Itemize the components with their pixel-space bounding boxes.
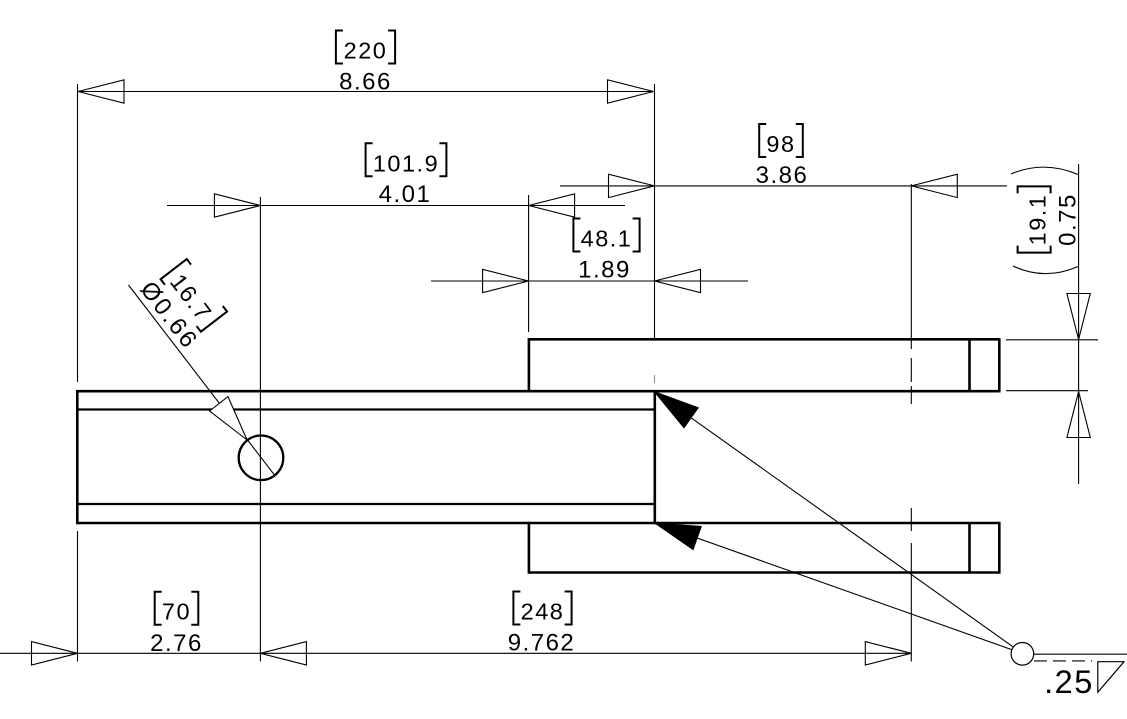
lower flange right edge xyxy=(998,522,1001,574)
arrow 3.86 left xyxy=(609,174,655,197)
arrow 0.75 bottom xyxy=(1067,392,1090,438)
extension line x=654.5 dash across flange xyxy=(654,375,656,383)
svg-text:4.01: 4.01 xyxy=(379,181,432,208)
arrow 1.89 right xyxy=(655,269,701,292)
dimension line 70 / 248 xyxy=(0,652,911,654)
paren arc top of (19.1) xyxy=(1011,167,1078,174)
hole diameter leader line xyxy=(129,285,275,476)
tube inner wall upper line xyxy=(79,408,655,410)
lower flange bottom edge xyxy=(529,571,999,574)
dimension line 220/8.66 xyxy=(78,91,654,93)
svg-text:101.9: 101.9 xyxy=(373,150,439,176)
tube top edge / flange bottom edge xyxy=(77,390,999,393)
weld reference line solid xyxy=(1034,653,1127,655)
svg-text:19.1: 19.1 xyxy=(1025,194,1051,246)
tube left edge xyxy=(76,390,79,524)
arrow 9.762 right xyxy=(865,642,911,665)
upper flange left edge xyxy=(528,338,531,392)
centerline dash x=911.3 lower flange a xyxy=(910,508,912,531)
extension line flange top right (y=339.8) xyxy=(1006,339,1098,341)
hole leader open arrow xyxy=(210,397,248,440)
arrow 3.86 right xyxy=(911,174,957,197)
dimension line 101.9/4.01 xyxy=(167,205,625,207)
rotated hole diameter text [16.7] D0.66 xyxy=(135,255,232,355)
extension line left (x=77.5) upper xyxy=(77,84,79,382)
centerline dash x=911.3 upper flange b xyxy=(910,386,912,404)
weld leader filled arrow lower xyxy=(655,523,702,550)
dimension line 98/3.86 xyxy=(560,185,1007,187)
arrow 1.89 left xyxy=(483,269,529,292)
tube right end edge xyxy=(653,390,656,524)
svg-text:9.762: 9.762 xyxy=(508,630,576,657)
fillet weld triangle symbol xyxy=(1098,662,1124,693)
svg-text:.25: .25 xyxy=(1044,664,1094,700)
extension/centerline x=911.3 upper solid xyxy=(910,184,912,349)
arrow 8.66 left xyxy=(78,80,124,103)
arrow 2.76 right xyxy=(260,642,306,665)
hitch pin hole circle xyxy=(239,436,284,481)
weld leader filled arrow upper xyxy=(654,392,698,428)
svg-text:0.75: 0.75 xyxy=(1055,193,1082,246)
centerline dash x=911.3 upper flange a xyxy=(910,358,912,382)
svg-text:2.76: 2.76 xyxy=(150,630,203,657)
dimension line 48.1/1.89 xyxy=(431,280,748,282)
arrow 2.76 left xyxy=(32,642,78,665)
svg-text:248: 248 xyxy=(521,599,565,625)
upper flange inner end line xyxy=(968,339,971,391)
svg-text:48.1: 48.1 xyxy=(581,226,633,252)
extension line x=654.5 upper xyxy=(654,84,656,338)
extension line hole center (x=260.4) xyxy=(259,197,261,662)
weld leader to upper step corner xyxy=(654,392,1013,647)
paren arc bottom of (19.1) xyxy=(1013,266,1078,274)
svg-text:98: 98 xyxy=(766,131,795,157)
svg-text:1.89: 1.89 xyxy=(578,257,631,284)
svg-text:8.66: 8.66 xyxy=(339,69,392,96)
upper flange right edge xyxy=(998,338,1001,392)
weld leader to lower step corner xyxy=(655,523,1012,650)
tube inner wall lower line xyxy=(79,503,655,505)
extension line flange bottom right (y=390.7) xyxy=(1006,390,1088,392)
lower flange left edge xyxy=(528,522,531,574)
rotated reference dim [19.1] 0.75 xyxy=(1018,186,1082,252)
weld leader circle xyxy=(1011,643,1034,666)
svg-text:3.86: 3.86 xyxy=(756,162,809,189)
arrow 4.01 left xyxy=(214,194,260,217)
lower flange inner end line xyxy=(968,523,971,573)
arrow 4.01 right xyxy=(529,194,575,217)
extension line left (x=77.5) lower xyxy=(77,531,79,662)
weld reference line dashed (other side) xyxy=(1034,660,1092,662)
vertical dimension line 19.1/0.75 xyxy=(1078,164,1080,484)
svg-text:220: 220 xyxy=(344,38,388,64)
tube bottom edge / lower flange top edge xyxy=(77,522,999,525)
svg-text:70: 70 xyxy=(162,599,191,625)
extension line x=528.6 xyxy=(528,195,530,332)
upper flange top edge xyxy=(529,338,999,341)
arrow 8.66 right xyxy=(608,80,654,103)
arrow 0.75 top xyxy=(1067,294,1090,340)
extension x=911.3 lower solid xyxy=(910,543,912,662)
